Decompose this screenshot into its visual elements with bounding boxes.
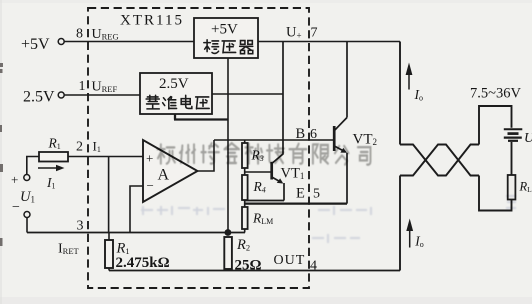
wire: VT1 base xyxy=(245,171,271,173)
resistor R_LM xyxy=(242,207,248,229)
svg-text:2: 2 xyxy=(76,140,83,155)
svg-text:U: U xyxy=(524,131,532,146)
svg-text:5: 5 xyxy=(313,187,320,202)
terminal U1 - xyxy=(24,212,30,218)
arrow I_o bottom xyxy=(409,230,411,248)
svg-text:+5V: +5V xyxy=(211,22,238,38)
svg-text:E: E xyxy=(296,186,305,202)
transistor VT2 xyxy=(333,126,336,151)
svg-text:B: B xyxy=(296,126,306,142)
label 稳压器 in regulator box xyxy=(204,40,253,54)
svg-text:−: − xyxy=(12,200,20,215)
wire: reference box bottom strap xyxy=(174,114,228,120)
terminal 2.5V input xyxy=(58,92,64,98)
svg-text:3: 3 xyxy=(77,219,84,234)
wire: reference output to V+ drop xyxy=(212,93,283,95)
terminal U1 + xyxy=(24,175,30,181)
svg-text:2.5V: 2.5V xyxy=(23,89,55,106)
resistor R_L xyxy=(508,175,516,200)
arrow I1 current xyxy=(38,167,57,169)
svg-text:2.5V: 2.5V xyxy=(159,76,189,92)
resistor R_I (input) xyxy=(39,152,68,162)
svg-text:−: − xyxy=(147,178,154,193)
wire: OUT rail (pin 4) xyxy=(109,270,400,272)
wire: loop vertical from U+ rail xyxy=(399,42,401,145)
arrow I_o top xyxy=(408,73,410,90)
resistor R3 xyxy=(244,140,246,172)
svg-text:25Ω: 25Ω xyxy=(235,258,262,274)
svg-text:8: 8 xyxy=(76,27,83,42)
svg-text:6: 6 xyxy=(310,127,317,142)
wire: supply loop right side xyxy=(479,106,512,211)
op-amp A xyxy=(143,140,198,202)
svg-text:4: 4 xyxy=(310,259,317,274)
junction dot xyxy=(225,229,232,236)
svg-text:+: + xyxy=(11,172,18,187)
wire: regulator ground drop xyxy=(227,58,229,233)
faint blue print-through text blocks xyxy=(141,196,516,243)
wire: +5V rail (pin 8 to U+ pin 7) xyxy=(64,41,400,43)
label 基准电压 in reference box xyxy=(146,95,209,109)
svg-text:OUT: OUT xyxy=(274,253,306,268)
wire: I_RET rail (pin 3) xyxy=(27,232,245,234)
wire: op-amp output riser to base line B xyxy=(198,140,215,171)
wire: V+ vertical drop to VT1 collector xyxy=(272,42,283,164)
transistor VT1 xyxy=(270,162,273,180)
wire: E rail (pin 5) xyxy=(245,202,347,204)
svg-text:+: + xyxy=(146,151,153,166)
watermark 杭州将睿科技有限公司 xyxy=(157,143,370,164)
twisted pair wire a xyxy=(400,145,479,176)
resistor R4 xyxy=(244,172,246,207)
wire: VT2 emitter drop to E rail xyxy=(346,153,348,204)
terminal +5V input xyxy=(58,39,64,45)
wire: pin2 node drop xyxy=(108,157,110,233)
wire: loop vertical to OUT rail xyxy=(399,176,401,271)
svg-text:A: A xyxy=(158,167,170,184)
svg-text:2.475kΩ: 2.475kΩ xyxy=(116,255,170,271)
reference U2 box xyxy=(140,73,212,114)
svg-text:1: 1 xyxy=(79,79,86,94)
svg-text:+5V: +5V xyxy=(21,36,50,53)
resistor R2 25ohm xyxy=(227,237,229,271)
svg-text:XTR115: XTR115 xyxy=(120,13,184,29)
wire: VT1 emitter drop and return to R4 bottom xyxy=(245,183,284,201)
wire: op-amp inverting input feedback to I_RET rail xyxy=(130,186,143,233)
wire: U1 + terminal to R_I xyxy=(27,157,39,175)
scan edge artifacts xyxy=(0,63,3,246)
resistor R1 2.475k xyxy=(108,233,110,271)
regulator U1 box xyxy=(194,18,258,58)
battery U_S plates xyxy=(504,128,523,130)
wire: U1 - terminal to I_RET rail xyxy=(26,218,28,233)
twisted pair wire b xyxy=(400,145,479,176)
wire: 2.5V input to reference box xyxy=(64,94,140,96)
XTR115 dashed boundary box xyxy=(88,8,309,288)
svg-text:7.5~36V: 7.5~36V xyxy=(470,86,521,102)
wire: op-amp non-inverting input xyxy=(68,156,143,158)
svg-text:7: 7 xyxy=(311,26,318,41)
wire: base line B (to pin 6 and VT2 base) xyxy=(214,139,334,141)
